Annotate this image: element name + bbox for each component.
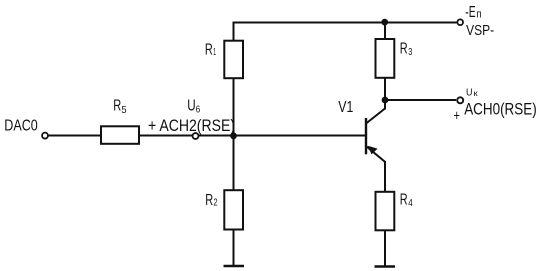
wire R1 bottom to R2 top <box>233 78 235 192</box>
wire DAC0 terminal to R5 <box>49 135 103 137</box>
svg-text:к: к <box>474 89 479 98</box>
resistor R2 <box>224 190 243 229</box>
wire R3 bottom to collector node <box>384 78 386 101</box>
wire R2 bottom to ground <box>233 229 235 266</box>
junction node on rail <box>381 19 388 26</box>
terminal -En / VSP- <box>457 19 463 25</box>
svg-text:6: 6 <box>196 104 201 116</box>
terminal Uk / ACH0 <box>457 97 463 103</box>
junction node collector <box>382 97 389 104</box>
svg-text:3: 3 <box>408 46 412 58</box>
ground right <box>375 265 396 268</box>
node U6 open circle <box>193 133 199 139</box>
transistor emitter arrow <box>368 146 378 155</box>
wire rail to R3 <box>384 23 386 41</box>
svg-text:1: 1 <box>213 46 216 58</box>
svg-text:VSP-: VSP- <box>466 22 494 39</box>
svg-text:U: U <box>187 98 195 115</box>
junction node at base line <box>230 132 237 139</box>
resistor R4 <box>376 192 395 231</box>
resistor R1 <box>224 41 243 78</box>
svg-text:+ ACH2(RSE): + ACH2(RSE) <box>148 117 235 135</box>
svg-text:2: 2 <box>213 197 217 209</box>
wire left vertical from rail to R1 <box>233 22 235 42</box>
svg-text:п: п <box>476 9 481 21</box>
wire R5 to node junction <box>138 135 234 137</box>
svg-text:R: R <box>400 41 408 58</box>
wire base: junction to transistor base bar <box>234 135 367 137</box>
svg-text:V1: V1 <box>338 99 353 116</box>
svg-text:5: 5 <box>121 104 126 116</box>
svg-text:-E: -E <box>465 4 475 21</box>
wire emitter vertical to R4 <box>384 161 386 193</box>
ground left <box>224 265 245 268</box>
wire collector node to output terminal <box>385 99 456 101</box>
svg-text:R: R <box>205 192 213 209</box>
wire R4 bottom to ground <box>384 230 386 267</box>
svg-text:R: R <box>400 192 408 209</box>
svg-text:R: R <box>205 41 213 58</box>
svg-text:DAC0: DAC0 <box>4 118 38 135</box>
transistor V1 <box>366 100 385 162</box>
terminal DAC0 <box>42 133 48 139</box>
resistor R3 <box>376 39 395 78</box>
svg-text:4: 4 <box>408 197 413 209</box>
resistor R5 <box>101 126 139 144</box>
svg-text:U: U <box>466 86 473 98</box>
svg-text:ACH0(RSE): ACH0(RSE) <box>464 101 537 119</box>
svg-text:R: R <box>113 98 121 115</box>
wire top rail <box>233 22 457 24</box>
svg-text:+: + <box>454 108 461 125</box>
